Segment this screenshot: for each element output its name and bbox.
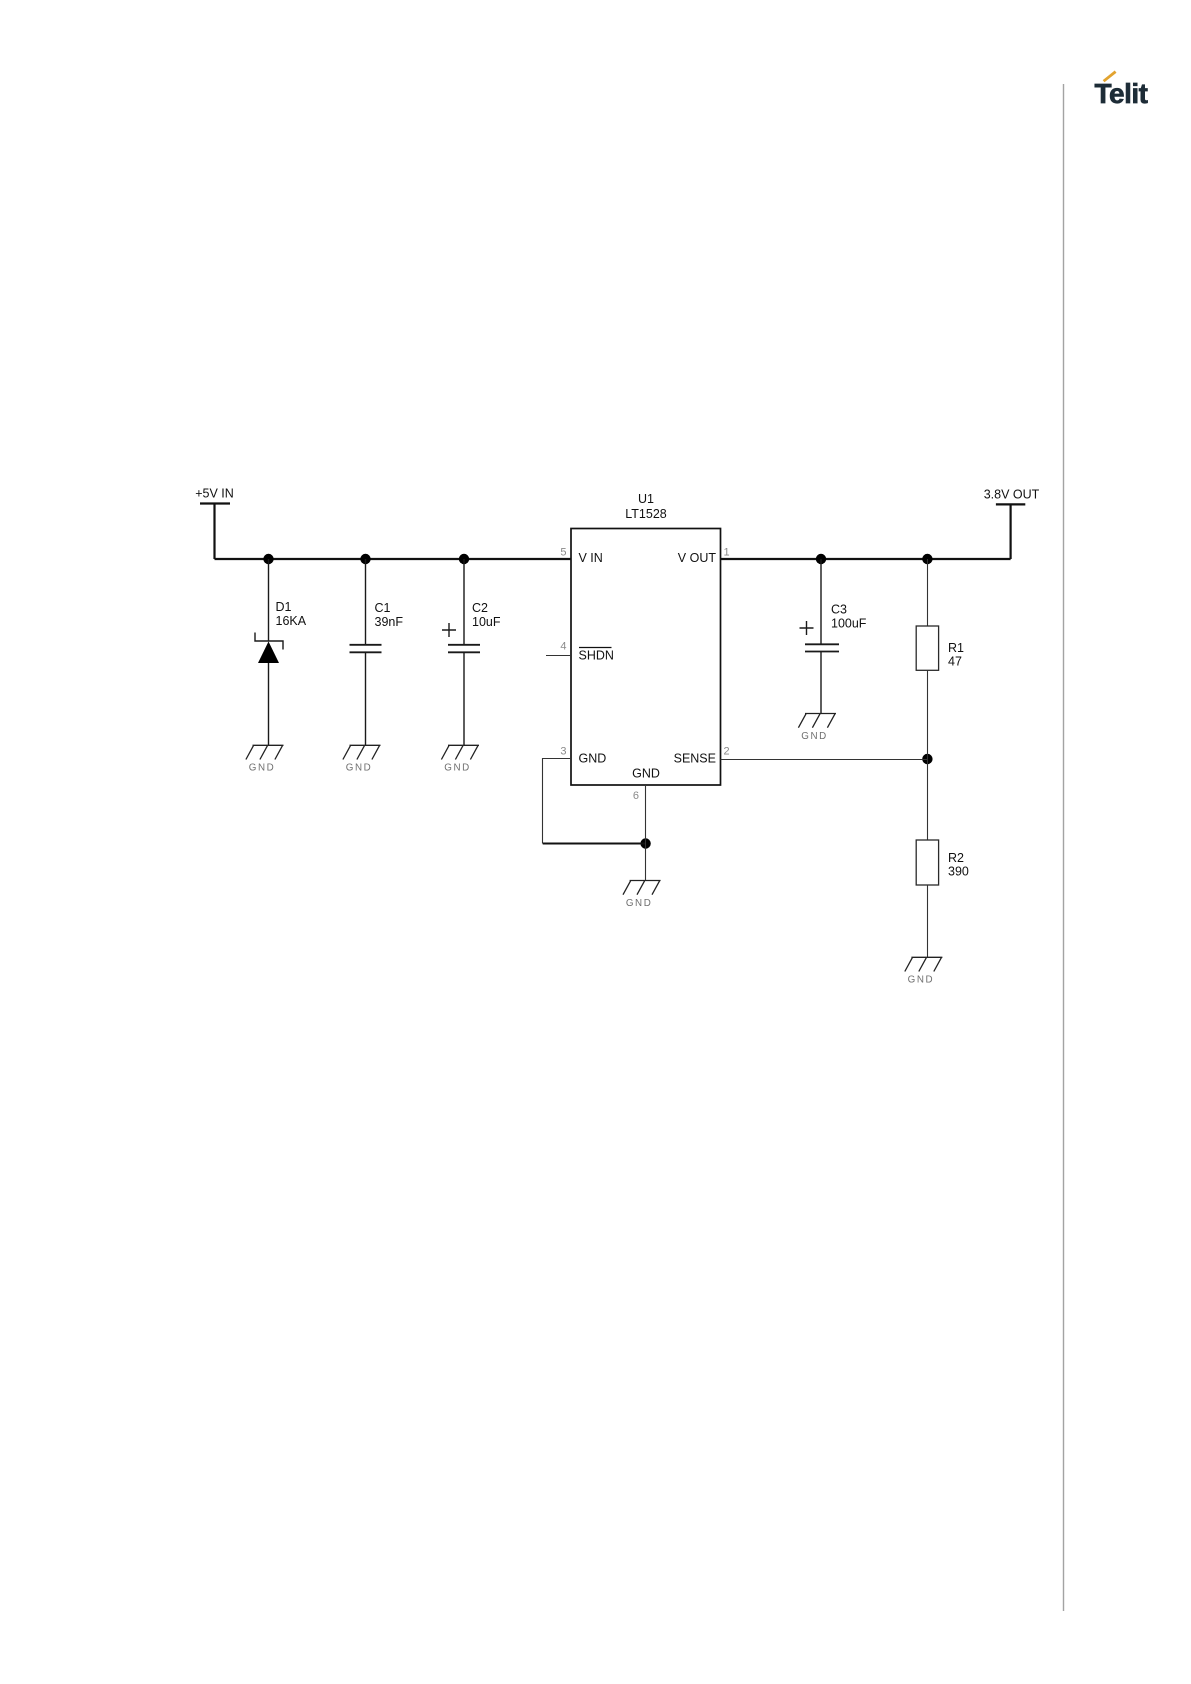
svg-text:GND: GND [579, 752, 607, 766]
svg-text:V OUT: V OUT [678, 551, 717, 565]
svg-text:5: 5 [560, 547, 566, 559]
svg-text:SENSE: SENSE [674, 752, 716, 766]
svg-text:+5V IN: +5V IN [195, 487, 234, 501]
svg-text:C2: C2 [472, 601, 488, 615]
svg-text:47: 47 [948, 655, 962, 669]
svg-text:Telit: Telit [1095, 78, 1148, 109]
svg-text:3.8V OUT: 3.8V OUT [984, 488, 1040, 502]
svg-text:D1: D1 [276, 600, 292, 614]
svg-text:GND: GND [632, 767, 660, 781]
svg-text:16KA: 16KA [276, 614, 307, 628]
svg-text:2: 2 [724, 746, 730, 758]
svg-text:6: 6 [633, 790, 639, 802]
svg-text:R2: R2 [948, 851, 964, 865]
svg-text:R1: R1 [948, 641, 964, 655]
svg-text:10uF: 10uF [472, 615, 501, 629]
svg-text:C1: C1 [375, 601, 391, 615]
svg-text:100uF: 100uF [831, 617, 867, 631]
svg-text:SHDN: SHDN [579, 649, 614, 663]
svg-text:3: 3 [560, 746, 566, 758]
svg-text:C3: C3 [831, 603, 847, 617]
svg-text:39nF: 39nF [375, 615, 404, 629]
svg-text:4: 4 [560, 641, 566, 653]
svg-text:1: 1 [724, 547, 730, 559]
svg-text:390: 390 [948, 865, 969, 879]
svg-text:V IN: V IN [579, 551, 603, 565]
svg-text:LT1528: LT1528 [625, 507, 667, 521]
svg-text:U1: U1 [638, 492, 654, 506]
